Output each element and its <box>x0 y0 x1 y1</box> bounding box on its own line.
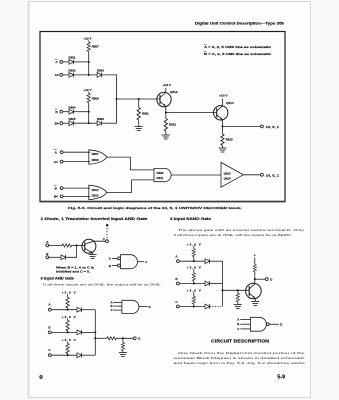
wire <box>88 52 90 75</box>
wire <box>210 260 223 262</box>
wire <box>210 283 223 285</box>
ground <box>234 305 242 309</box>
legend note line 1 <box>204 44 206 46</box>
wire gate output D <box>139 306 148 308</box>
inverter bubble <box>266 323 269 326</box>
svg-text:D: D <box>149 305 151 309</box>
wire <box>63 187 90 189</box>
svg-text:Q814: Q814 <box>226 101 234 105</box>
node output 10,5,1 <box>260 173 263 176</box>
svg-text:if all three inputs are at ONE: if all three inputs are at ONE, will the… <box>174 233 293 237</box>
gate symbol (inverted input AND) <box>121 255 138 269</box>
wire <box>179 283 205 285</box>
wire <box>82 354 96 356</box>
diode row C <box>77 353 82 358</box>
svg-text:1 Diode, 1 Transistor Inverted: 1 Diode, 1 Transistor Inverted Input AND… <box>41 217 148 221</box>
wire <box>63 161 90 163</box>
wire <box>88 103 90 123</box>
svg-text:5-9: 5-9 <box>277 375 285 381</box>
diode row A <box>205 259 210 264</box>
svg-text:3 Input NAND Gate: 3 Input NAND Gate <box>170 217 211 221</box>
resistor row C <box>193 292 195 296</box>
svg-text:3 Input AND Gate: 3 Input AND Gate <box>41 276 75 280</box>
svg-text:Fig. 5-5. Circuit and logic di: Fig. 5-5. Circuit and logic diagrams of … <box>68 206 242 210</box>
ground <box>251 301 259 305</box>
svg-text:B4: B4 <box>54 195 58 199</box>
svg-text:+3.6 V: +3.6 V <box>187 289 202 293</box>
gate D807 D808 <box>89 150 107 164</box>
svg-text:A4: A4 <box>54 160 58 164</box>
wire buffer output <box>243 174 260 176</box>
wire output <box>95 337 107 339</box>
svg-text:and basic logic form in Fig. 5: and basic logic form in Fig. 5-2. Fig. 5… <box>174 361 306 365</box>
wire dashed link to figure above <box>106 224 109 227</box>
gate symbol 3-input AND <box>122 300 139 313</box>
svg-text:D807: D807 <box>92 152 99 156</box>
svg-text:R809: R809 <box>92 97 99 101</box>
svg-text:A4: A4 <box>55 73 59 77</box>
ground <box>89 254 97 258</box>
svg-text:R807: R807 <box>92 45 99 49</box>
gate D809 D811 <box>154 168 171 181</box>
svg-text:D803: D803 <box>97 69 104 73</box>
svg-text:+: + <box>254 254 256 258</box>
wire <box>51 309 77 311</box>
diode D805 <box>69 121 74 126</box>
wire emitter <box>92 253 94 254</box>
wire output <box>255 278 265 280</box>
svg-text:Q812: Q812 <box>170 90 178 94</box>
transistor Q812 <box>157 92 171 106</box>
wire <box>51 331 77 333</box>
wire <box>74 111 89 113</box>
svg-text:One block from the Digital Uni: One block from the Digital Unit Control … <box>178 351 305 355</box>
resistor R815 <box>222 126 224 134</box>
svg-text:Digital Unit Control Descripti: Digital Unit Control Description—Type 35… <box>195 22 284 26</box>
transistor Q <box>246 283 262 299</box>
svg-text:D805: D805 <box>69 117 76 121</box>
buffer amplifier Q812 Q814 triangle <box>221 162 243 187</box>
ground <box>162 135 170 139</box>
transistor Q <box>82 239 96 253</box>
node A-bar input <box>54 149 57 151</box>
wire <box>82 331 96 333</box>
wire emitter node <box>165 107 167 113</box>
svg-text:The above gate with an inverte: The above gate with an inverter before t… <box>178 228 305 232</box>
wire <box>88 41 90 43</box>
wire <box>66 245 77 257</box>
diode D801 <box>69 60 74 65</box>
wire <box>63 111 69 113</box>
wire dashed <box>210 306 223 308</box>
node output D <box>133 337 136 340</box>
resistor pull-down <box>122 338 124 342</box>
transistor Q814 <box>214 106 228 120</box>
wire collector <box>85 241 106 244</box>
svg-text:B: B <box>237 322 239 326</box>
resistor pull-down <box>237 290 239 293</box>
gate symbol 3-input NAND <box>251 317 267 331</box>
ground <box>219 148 227 152</box>
svg-text:+3.6 V: +3.6 V <box>187 242 202 246</box>
diode row B <box>77 330 82 335</box>
svg-text:B = A, 2, 5 CM0 line as schema: B = A, 2, 5 CM0 line as schematic <box>204 52 272 56</box>
resistor (series output) <box>107 337 117 340</box>
svg-text:10, 5, 1: 10, 5, 1 <box>266 173 280 177</box>
wire to Q814 base <box>166 112 217 114</box>
svg-text:+12 V: +12 V <box>84 88 92 92</box>
wire to Q812 base <box>117 98 160 100</box>
resistor R813 <box>165 113 167 119</box>
resistor R811 <box>138 99 140 108</box>
resistor collector load <box>254 272 256 279</box>
wire <box>88 92 90 93</box>
node output D <box>265 278 268 281</box>
svg-text:D809: D809 <box>157 171 164 175</box>
wire collector to +3.6V <box>165 88 167 93</box>
svg-text:+3.6 V: +3.6 V <box>187 266 202 270</box>
figure border box <box>40 32 285 202</box>
diode (inhibit) <box>61 255 66 260</box>
wire <box>63 151 90 153</box>
svg-text:+3.6 V: +3.6 V <box>62 315 77 319</box>
svg-text:D812: D812 <box>92 194 99 198</box>
diode D802 <box>69 73 74 78</box>
resistor row A <box>67 294 69 297</box>
diode row C <box>205 304 210 309</box>
resistor R809 <box>87 93 90 103</box>
wire <box>116 337 133 339</box>
svg-text:D802: D802 <box>69 69 76 73</box>
svg-text:B: B <box>109 264 111 268</box>
svg-text:®: ® <box>39 374 43 381</box>
svg-text:D810: D810 <box>92 188 99 192</box>
wire collector to +3.6V <box>222 99 224 106</box>
wire <box>102 75 117 123</box>
svg-text:D804: D804 <box>69 106 76 110</box>
svg-text:D: D <box>280 323 282 327</box>
diode row A <box>77 307 82 312</box>
svg-text:CIRCUIT DESCRIPTION: CIRCUIT DESCRIPTION <box>211 339 269 344</box>
svg-text:A: A <box>237 318 239 322</box>
wire <box>49 256 61 258</box>
svg-text:Q813: Q813 <box>224 171 231 175</box>
svg-text:R815: R815 <box>226 138 233 142</box>
diode D806 <box>97 121 102 126</box>
svg-text:Q814: Q814 <box>224 176 231 180</box>
svg-text:inhibited and C = 0.: inhibited and C = 0. <box>56 269 90 273</box>
svg-text:C: C <box>237 327 239 331</box>
wire emitter <box>254 299 256 302</box>
wire <box>179 260 205 262</box>
svg-text:D811: D811 <box>157 176 164 180</box>
wire emitter to output <box>222 120 224 127</box>
wire collector <box>254 279 256 283</box>
node output 10,5,1 <box>260 125 263 128</box>
wire <box>51 354 77 356</box>
wire gate2 output <box>107 180 154 193</box>
wire <box>49 244 62 246</box>
ground <box>119 353 127 357</box>
wire bus vertical <box>222 261 224 306</box>
svg-text:A = 0, 2, 5 CM0 line as schema: A = 0, 2, 5 CM0 line as schematic <box>204 45 272 49</box>
wire <box>74 61 89 63</box>
resistor row A <box>193 246 195 249</box>
svg-text:D801: D801 <box>69 56 76 60</box>
wire <box>63 74 69 76</box>
svg-text:B4: B4 <box>55 121 59 125</box>
resistor R807 <box>87 42 90 52</box>
svg-text:R811: R811 <box>142 112 149 116</box>
ground <box>135 127 143 131</box>
svg-text:R813: R813 <box>169 123 176 127</box>
svg-text:complete Block Diagram is show: complete Block Diagram is shown in detai… <box>174 356 306 360</box>
node B-bar input <box>54 184 57 186</box>
resistor (base) <box>62 244 72 247</box>
wire bus vertical <box>94 310 96 356</box>
svg-text:D808: D808 <box>92 158 99 162</box>
wire <box>74 122 98 124</box>
wire gate3 output <box>171 174 221 176</box>
resistor row B <box>193 269 195 273</box>
svg-text:If all three inputs are at ONE: If all three inputs are at ONE, the outp… <box>43 283 161 287</box>
legend note line 2 <box>204 51 206 53</box>
wire <box>63 195 90 197</box>
svg-text:+3.6 V: +3.6 V <box>163 83 172 87</box>
node A-bar input <box>55 58 58 60</box>
svg-text:D806: D806 <box>97 117 104 121</box>
svg-text:+12 V: +12 V <box>84 37 92 41</box>
gate D810 D812 <box>89 185 107 199</box>
svg-text:+3.6 V: +3.6 V <box>219 94 228 98</box>
wire <box>63 122 69 124</box>
wire base <box>223 289 250 291</box>
wire <box>63 61 69 63</box>
diode D804 <box>69 109 74 114</box>
svg-text:D: D <box>270 278 272 282</box>
wire <box>102 122 117 124</box>
svg-text:10, 5, 1: 10, 5, 1 <box>266 125 280 129</box>
wire <box>179 306 205 308</box>
svg-text:C: C <box>110 308 112 312</box>
wire <box>82 309 96 311</box>
diode row B <box>205 281 210 286</box>
wire gate output D <box>269 323 279 325</box>
resistor row C <box>67 342 69 344</box>
svg-text:+3.6 V: +3.6 V <box>62 291 77 295</box>
resistor row B <box>67 319 69 321</box>
wire gate output C <box>138 261 144 263</box>
svg-text:+3.6 V: +3.6 V <box>62 338 77 342</box>
wire <box>74 74 98 76</box>
node B-bar input <box>55 108 58 110</box>
diode D803 <box>97 73 102 78</box>
wire <box>72 244 85 246</box>
wire gate1 output <box>107 157 154 170</box>
